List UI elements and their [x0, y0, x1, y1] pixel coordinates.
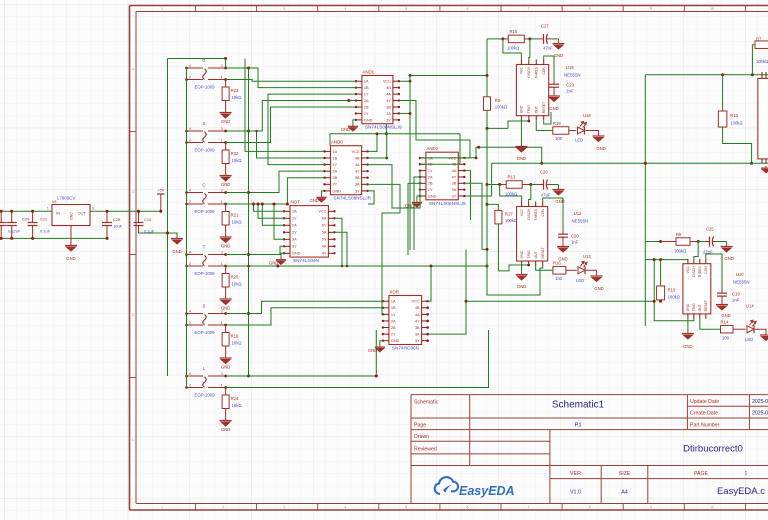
svg-text:GND: GND	[428, 194, 437, 198]
svg-text:1A: 1A	[292, 210, 297, 214]
svg-text:RESET: RESET	[704, 300, 708, 311]
svg-text:C: C	[202, 183, 205, 188]
svg-text:Part Number: Part Number	[690, 422, 720, 428]
svg-text:Page: Page	[414, 422, 426, 428]
svg-text:3A: 3A	[415, 333, 420, 337]
svg-text:3: 3	[221, 127, 223, 131]
svg-text:3B: 3B	[452, 182, 457, 186]
svg-text:G: G	[202, 58, 206, 63]
svg-text:SN74LS04N: SN74LS04N	[293, 258, 319, 263]
svg-text:R8: R8	[495, 98, 501, 103]
svg-text:CON: CON	[704, 266, 708, 274]
svg-text:4: 4	[344, 7, 346, 11]
svg-text:3: 3	[221, 309, 223, 313]
svg-text:GND: GND	[558, 257, 567, 262]
svg-text:R9: R9	[676, 232, 682, 237]
svg-text:S: S	[203, 304, 206, 309]
svg-text:U10: U10	[736, 272, 744, 277]
svg-text:Schematic1: Schematic1	[552, 400, 605, 411]
svg-text:TRIG: TRIG	[527, 105, 531, 113]
svg-text:GND: GND	[594, 286, 603, 291]
svg-text:AND2: AND2	[426, 146, 438, 151]
svg-text:DISCH: DISCH	[527, 208, 531, 219]
svg-text:1: 1	[132, 438, 134, 442]
svg-text:1nF: 1nF	[571, 240, 579, 245]
svg-text:4A: 4A	[415, 313, 420, 317]
svg-text:1B: 1B	[391, 306, 396, 310]
svg-text:4: 4	[189, 309, 191, 313]
svg-text:OUT: OUT	[534, 106, 538, 113]
svg-text:R14: R14	[721, 320, 729, 325]
svg-text:C25: C25	[706, 227, 714, 232]
svg-text:GND: GND	[721, 313, 730, 318]
svg-text:2A: 2A	[333, 170, 338, 174]
svg-text:100kΩ: 100kΩ	[505, 218, 517, 223]
svg-text:3Y: 3Y	[452, 194, 457, 198]
svg-text:1Y: 1Y	[364, 93, 369, 97]
svg-text:5: 5	[406, 7, 408, 11]
svg-text:9: 9	[650, 506, 652, 510]
svg-text:R10: R10	[668, 288, 676, 293]
svg-text:10kΩ: 10kΩ	[232, 403, 242, 408]
svg-text:1: 1	[161, 7, 163, 11]
svg-text:1: 1	[221, 75, 223, 79]
svg-text:R15: R15	[510, 29, 518, 34]
svg-text:IN: IN	[56, 211, 60, 216]
svg-text:1nF: 1nF	[566, 89, 574, 94]
svg-text:TRIG: TRIG	[527, 250, 531, 258]
svg-text:2B: 2B	[364, 105, 369, 109]
svg-text:Drawn: Drawn	[414, 434, 429, 440]
svg-text:GND: GND	[310, 198, 319, 203]
svg-text:4A: 4A	[355, 163, 360, 167]
svg-text:CON: CON	[542, 66, 546, 74]
svg-text:100kΩ: 100kΩ	[507, 46, 519, 51]
svg-text:2: 2	[189, 383, 191, 387]
svg-text:2025-0: 2025-0	[752, 410, 768, 416]
svg-text:1: 1	[221, 262, 223, 266]
svg-text:+5V: +5V	[157, 189, 164, 193]
svg-text:3Y: 3Y	[292, 245, 297, 249]
svg-text:47uF: 47uF	[541, 193, 551, 198]
svg-text:10kΩ: 10kΩ	[232, 158, 242, 163]
svg-text:100kΩ: 100kΩ	[668, 295, 680, 300]
svg-text:2: 2	[222, 506, 224, 510]
svg-text:EOP-1009: EOP-1009	[195, 393, 216, 398]
svg-text:4Y: 4Y	[415, 319, 420, 323]
svg-text:1B: 1B	[364, 86, 369, 90]
svg-text:2: 2	[222, 7, 224, 11]
svg-text:3B: 3B	[355, 176, 360, 180]
svg-text:Update Date: Update Date	[690, 399, 719, 405]
svg-text:4B: 4B	[386, 86, 391, 90]
svg-text:GND: GND	[292, 252, 301, 256]
svg-text:2Y: 2Y	[428, 188, 433, 192]
svg-text:1B: 1B	[333, 156, 338, 160]
svg-text:100: 100	[722, 336, 730, 341]
svg-text:1Y: 1Y	[428, 169, 433, 173]
svg-text:47uF: 47uF	[543, 46, 553, 51]
svg-text:1: 1	[221, 138, 223, 142]
svg-text:8: 8	[589, 506, 591, 510]
svg-text:SIZE: SIZE	[619, 471, 631, 477]
svg-text:3A: 3A	[452, 188, 457, 192]
svg-text:THRES: THRES	[534, 66, 538, 78]
svg-text:L7805CV: L7805CV	[57, 196, 75, 201]
svg-text:EOP-1009: EOP-1009	[195, 148, 216, 153]
svg-text:2Y: 2Y	[333, 183, 338, 187]
svg-text:Dtirbucorrect0: Dtirbucorrect0	[683, 444, 743, 455]
svg-text:GND: GND	[221, 119, 230, 124]
svg-text:3Y: 3Y	[355, 189, 360, 193]
svg-text:EOP-1009: EOP-1009	[195, 85, 216, 90]
svg-text:GND: GND	[172, 249, 181, 254]
svg-text:3B: 3B	[386, 105, 391, 109]
svg-text:OUT: OUT	[698, 304, 702, 311]
svg-text:GND: GND	[683, 344, 692, 349]
svg-text:2B: 2B	[333, 176, 338, 180]
svg-text:3: 3	[221, 250, 223, 254]
svg-text:R20: R20	[231, 275, 239, 280]
svg-text:GND: GND	[364, 118, 373, 122]
svg-text:100kΩ: 100kΩ	[674, 249, 686, 254]
svg-text:C12: C12	[144, 217, 152, 222]
svg-text:SN74LS08NSLJ9: SN74LS08NSLJ9	[429, 201, 466, 206]
svg-text:100: 100	[555, 276, 563, 281]
svg-text:100kΩ: 100kΩ	[730, 121, 742, 126]
svg-text:RESET: RESET	[542, 102, 546, 113]
svg-text:VCC: VCC	[520, 208, 524, 216]
svg-text:GND: GND	[596, 146, 605, 151]
svg-text:4A: 4A	[452, 169, 457, 173]
svg-text:R17: R17	[505, 212, 513, 217]
svg-text:1A: 1A	[333, 150, 338, 154]
svg-text:6Y: 6Y	[322, 224, 327, 228]
svg-text:EOP-1009: EOP-1009	[195, 330, 216, 335]
svg-text:3A: 3A	[292, 238, 297, 242]
svg-text:SN74LS08NSLJ9: SN74LS08NSLJ9	[365, 125, 402, 130]
svg-text:A4: A4	[621, 490, 628, 496]
svg-text:2B: 2B	[428, 182, 433, 186]
svg-text:V1.0: V1.0	[570, 490, 581, 496]
svg-text:3: 3	[132, 190, 134, 194]
svg-text:R13: R13	[508, 175, 516, 180]
svg-text:VCC: VCC	[686, 266, 690, 274]
svg-text:GND: GND	[554, 53, 563, 58]
svg-text:C26: C26	[540, 170, 548, 175]
svg-text:3: 3	[283, 7, 285, 11]
svg-text:R23: R23	[231, 88, 239, 93]
svg-text:2A: 2A	[391, 319, 396, 323]
svg-text:10: 10	[710, 7, 714, 11]
svg-text:TRIG: TRIG	[692, 303, 696, 311]
svg-text:R19: R19	[231, 334, 239, 339]
svg-text:GND: GND	[341, 127, 350, 132]
svg-text:4: 4	[189, 250, 191, 254]
svg-text:1Y: 1Y	[333, 163, 338, 167]
svg-text:100kΩ: 100kΩ	[495, 105, 507, 110]
svg-text:6: 6	[467, 506, 469, 510]
svg-text:EasyEDA.c: EasyEDA.c	[717, 486, 765, 497]
svg-text:C28: C28	[113, 217, 121, 222]
svg-text:4: 4	[132, 67, 134, 71]
svg-text:1A: 1A	[364, 80, 369, 84]
svg-text:2A: 2A	[292, 224, 297, 228]
svg-text:C29: C29	[22, 217, 30, 222]
svg-text:1: 1	[745, 471, 748, 477]
svg-text:4: 4	[189, 127, 191, 131]
svg-text:7: 7	[528, 7, 530, 11]
svg-text:9: 9	[650, 7, 652, 11]
svg-text:C23: C23	[566, 83, 574, 88]
svg-text:10kΩ: 10kΩ	[232, 341, 242, 346]
svg-text:5A: 5A	[322, 231, 327, 235]
svg-text:1: 1	[161, 506, 163, 510]
svg-text:GND: GND	[520, 105, 524, 113]
svg-text:P1: P1	[574, 422, 581, 428]
svg-text:DISCH: DISCH	[527, 66, 531, 77]
svg-text:2Y: 2Y	[364, 112, 369, 116]
svg-text:4A: 4A	[386, 93, 391, 97]
svg-text:U15: U15	[566, 65, 574, 70]
svg-text:4: 4	[189, 372, 191, 376]
svg-text:C27: C27	[541, 24, 549, 29]
svg-text:PAGE: PAGE	[694, 471, 709, 477]
svg-text:4B: 4B	[355, 156, 360, 160]
svg-text:GND: GND	[221, 182, 230, 187]
svg-text:EOP-1009: EOP-1009	[195, 209, 216, 214]
svg-text:1: 1	[221, 383, 223, 387]
svg-text:U16: U16	[583, 113, 591, 118]
svg-text:2: 2	[189, 262, 191, 266]
svg-text:LED: LED	[576, 278, 584, 283]
svg-text:R21: R21	[231, 213, 239, 218]
svg-text:3A: 3A	[386, 112, 391, 116]
svg-text:2: 2	[189, 200, 191, 204]
svg-text:C19: C19	[732, 292, 740, 297]
svg-text:GND: GND	[517, 156, 526, 161]
svg-text:U12: U12	[574, 211, 582, 216]
svg-text:THRES: THRES	[698, 265, 702, 277]
svg-text:10kΩ: 10kΩ	[232, 95, 242, 100]
svg-text:3B: 3B	[415, 326, 420, 330]
svg-text:6: 6	[467, 7, 469, 11]
svg-text:GND: GND	[70, 212, 74, 220]
svg-text:4Y: 4Y	[322, 252, 327, 256]
svg-text:3: 3	[221, 372, 223, 376]
svg-text:VER: VER	[570, 471, 581, 477]
svg-text:5Y: 5Y	[322, 238, 327, 242]
svg-text:OUT: OUT	[534, 251, 538, 258]
svg-text:5: 5	[406, 506, 408, 510]
svg-text:4Y: 4Y	[386, 99, 391, 103]
svg-text:100: 100	[555, 136, 563, 141]
svg-text:3: 3	[92, 207, 94, 211]
svg-text:GND: GND	[549, 106, 558, 111]
svg-text:GND: GND	[391, 339, 400, 343]
svg-text:1A: 1A	[391, 300, 396, 304]
svg-text:GND: GND	[221, 365, 230, 370]
svg-text:2Y: 2Y	[292, 231, 297, 235]
svg-text:2Y: 2Y	[391, 333, 396, 337]
svg-text:1: 1	[221, 200, 223, 204]
svg-text:1Y: 1Y	[292, 217, 297, 221]
svg-text:6A: 6A	[322, 217, 327, 221]
svg-text:GND: GND	[333, 189, 342, 193]
svg-text:2A: 2A	[428, 175, 433, 179]
svg-text:U14: U14	[746, 304, 754, 309]
svg-text:R24: R24	[231, 396, 239, 401]
svg-text:7: 7	[528, 506, 530, 510]
svg-text:T: T	[203, 245, 206, 250]
svg-text:GND: GND	[520, 250, 524, 258]
svg-text:R18: R18	[553, 121, 561, 126]
svg-text:10kΩ: 10kΩ	[232, 220, 242, 225]
svg-text:U13: U13	[583, 254, 591, 259]
svg-text:3: 3	[221, 64, 223, 68]
svg-text:AND0: AND0	[331, 140, 343, 145]
svg-text:VCC: VCC	[520, 66, 524, 74]
svg-text:NE555N: NE555N	[572, 219, 589, 224]
svg-text:4: 4	[344, 506, 346, 510]
svg-text:2: 2	[189, 321, 191, 325]
svg-text:LED: LED	[745, 337, 753, 342]
svg-text:OUT: OUT	[78, 211, 87, 216]
svg-text:4Y: 4Y	[355, 170, 360, 174]
svg-text:10: 10	[710, 506, 714, 510]
svg-text:3A: 3A	[355, 183, 360, 187]
svg-text:3Y: 3Y	[415, 339, 420, 343]
svg-text:SN74LS08NSLJR: SN74LS08NSLJR	[334, 196, 372, 201]
svg-text:GND: GND	[517, 284, 526, 289]
svg-text:NE555N: NE555N	[564, 73, 581, 78]
svg-text:2A: 2A	[364, 99, 369, 103]
svg-text:10uF: 10uF	[113, 224, 123, 229]
svg-text:3: 3	[283, 506, 285, 510]
svg-text:Create Date: Create Date	[690, 410, 718, 416]
svg-text:THRES: THRES	[534, 208, 538, 220]
svg-text:R22: R22	[231, 151, 239, 156]
svg-text:GND: GND	[221, 244, 230, 249]
svg-text:NE555N: NE555N	[733, 280, 750, 285]
svg-text:GND: GND	[66, 256, 75, 261]
svg-text:2B: 2B	[391, 326, 396, 330]
svg-text:DISCH: DISCH	[692, 266, 696, 277]
svg-text:U9: U9	[52, 200, 56, 204]
svg-text:R10: R10	[730, 113, 738, 118]
svg-text:1Y: 1Y	[391, 313, 396, 317]
svg-text:3: 3	[221, 188, 223, 192]
svg-text:1: 1	[47, 207, 49, 211]
svg-text:S: S	[203, 121, 206, 126]
svg-text:4: 4	[189, 188, 191, 192]
svg-text:4: 4	[189, 64, 191, 68]
svg-text:LED: LED	[575, 138, 583, 143]
svg-text:10kΩ: 10kΩ	[232, 282, 242, 287]
svg-text:RESET: RESET	[541, 247, 545, 258]
svg-text:EOP-1009: EOP-1009	[195, 271, 216, 276]
svg-text:C20: C20	[571, 234, 579, 239]
svg-text:VCC: VCC	[412, 300, 420, 304]
svg-text:1nF: 1nF	[732, 298, 740, 303]
svg-text:C11: C11	[40, 217, 48, 222]
svg-text:EasyEDA: EasyEDA	[459, 484, 515, 498]
svg-text:VCC: VCC	[383, 80, 391, 84]
svg-text:NOT: NOT	[291, 200, 301, 205]
svg-text:VCC: VCC	[352, 150, 360, 154]
svg-text:100kΩ: 100kΩ	[756, 59, 768, 64]
svg-text:4Y: 4Y	[452, 175, 457, 179]
svg-text:1: 1	[221, 321, 223, 325]
svg-text:VCC: VCC	[318, 210, 326, 214]
svg-text:GND: GND	[686, 303, 690, 311]
svg-text:GND: GND	[221, 427, 230, 432]
svg-text:2: 2	[189, 138, 191, 142]
svg-text:4A: 4A	[322, 245, 327, 249]
svg-text:Reviewed: Reviewed	[414, 446, 437, 452]
svg-text:SN74HC86N: SN74HC86N	[392, 346, 419, 351]
svg-text:2: 2	[132, 313, 134, 317]
svg-text:R7: R7	[756, 37, 762, 42]
svg-text:AND1: AND1	[362, 70, 374, 75]
svg-text:0.1uF: 0.1uF	[40, 229, 51, 234]
svg-text:Schematic: Schematic	[414, 400, 439, 406]
svg-text:4B: 4B	[415, 306, 420, 310]
svg-text:2025-0: 2025-0	[752, 399, 768, 405]
svg-text:8: 8	[589, 7, 591, 11]
svg-text:3Y: 3Y	[386, 118, 391, 122]
svg-text:0.22uF: 0.22uF	[8, 229, 21, 234]
svg-text:GND: GND	[724, 256, 733, 261]
svg-text:CON: CON	[541, 208, 545, 216]
svg-text:2: 2	[189, 75, 191, 79]
svg-text:XOR: XOR	[389, 290, 399, 295]
